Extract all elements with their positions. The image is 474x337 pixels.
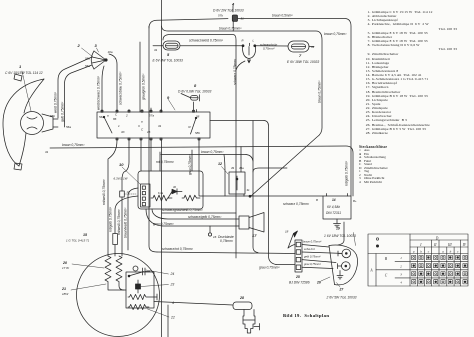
svg-text:C: C [141, 128, 144, 132]
svg-text:gelb 0,75mm²: gelb 0,75mm² [304, 255, 321, 259]
svg-text:86: 86 [113, 117, 117, 121]
svg-text:26: 26 [316, 281, 321, 285]
svg-text:L: L [253, 39, 255, 43]
svg-text:B: B [316, 198, 318, 202]
svg-text:3: 3 [400, 273, 402, 277]
svg-text:31: 31 [154, 48, 158, 52]
svg-text:D 6V 0,6W TGL 10033: D 6V 0,6W TGL 10033 [178, 90, 211, 94]
svg-text:schwarz 0,75mm²: schwarz 0,75mm² [283, 202, 310, 206]
svg-text:6,3a: 6,3a [158, 191, 164, 195]
svg-text:schwarz/rot 0,75mm²: schwarz/rot 0,75mm² [162, 247, 194, 251]
svg-text:III: III [447, 243, 452, 247]
svg-text:31: 31 [45, 150, 49, 154]
svg-text:braun/weiß 0,75mm²: braun/weiß 0,75mm² [124, 207, 128, 238]
svg-text:braun 0,75mm²: braun 0,75mm² [62, 143, 85, 147]
svg-text:b: b [450, 249, 452, 253]
svg-text:rot 0,75mm²: rot 0,75mm² [156, 160, 175, 164]
svg-text:E 6V 8W TGL 10033: E 6V 8W TGL 10033 [153, 59, 184, 63]
svg-text:31: 31 [247, 188, 251, 192]
svg-text:BJ DIN 72586: BJ DIN 72586 [289, 281, 310, 285]
svg-text:27: 27 [339, 288, 345, 292]
svg-text:C: C [385, 274, 388, 278]
svg-text:4: 4 [400, 281, 402, 285]
svg-text:22: 22 [170, 316, 175, 320]
svg-text:weiß/schwarz 0,75mm²: weiß/schwarz 0,75mm² [97, 75, 101, 110]
svg-text:0,75mm²: 0,75mm² [220, 239, 234, 243]
svg-text:12: 12 [218, 162, 222, 166]
svg-text:grau 0,75mm²: grau 0,75mm² [259, 266, 280, 270]
svg-text:31: 31 [311, 45, 315, 49]
svg-text:18W: 18W [62, 292, 69, 296]
svg-text:II: II [433, 243, 437, 247]
svg-text:56b: 56b [85, 57, 90, 61]
svg-text:c: c [457, 249, 459, 253]
svg-text:5: 5 [167, 52, 170, 57]
svg-text:49: 49 [231, 166, 235, 170]
svg-text:grau 0,75mm²: grau 0,75mm² [304, 262, 321, 266]
svg-text:braun 0,75mm²: braun 0,75mm² [219, 27, 242, 31]
svg-text:57a: 57a [149, 114, 154, 118]
svg-text:braun 0,75mm²: braun 0,75mm² [303, 240, 321, 244]
svg-text:1 G TGL 0-415 71: 1 G TGL 0-415 71 [66, 239, 90, 243]
svg-text:gelb 0,75mm²: gelb 0,75mm² [61, 101, 65, 122]
svg-text:4: 4 [172, 301, 174, 305]
svg-text:4: 4 [231, 2, 235, 7]
svg-text:17: 17 [252, 233, 257, 238]
svg-text:3: 3 [95, 43, 98, 48]
svg-text:rot/gelb 0,75mm²: rot/gelb 0,75mm² [345, 160, 349, 186]
svg-text:58b: 58b [195, 131, 200, 135]
svg-text:braun 0,75mm²: braun 0,75mm² [201, 150, 224, 154]
svg-text:weiß 0,75mm²: weiß 0,75mm² [54, 91, 58, 113]
svg-text:24: 24 [170, 272, 175, 276]
svg-text:schwarz/weiß 0,75mm²: schwarz/weiß 0,75mm² [189, 39, 224, 43]
svg-text:1: 1 [118, 124, 120, 128]
svg-text:A: A [369, 269, 373, 273]
svg-text:schwarzgrau/weiß 0,75mm²: schwarzgrau/weiß 0,75mm² [162, 208, 203, 212]
svg-text:grau 0,75mm²: grau 0,75mm² [188, 154, 192, 175]
svg-text:grau 0,75mm²: grau 0,75mm² [153, 222, 174, 226]
svg-text:2 6V 5W TGL 10033: 2 6V 5W TGL 10033 [326, 296, 357, 300]
svg-text:B: B [385, 257, 388, 261]
svg-text:16: 16 [213, 235, 217, 239]
svg-text:grau/grün 0,5mm²: grau/grün 0,5mm² [142, 73, 146, 100]
svg-text:56a: 56a [85, 64, 90, 68]
svg-text:a: a [141, 120, 143, 124]
svg-text:57b: 57b [218, 14, 223, 18]
svg-text:1: 1 [19, 64, 22, 69]
svg-text:a: a [442, 249, 444, 253]
svg-text:2: 2 [77, 43, 81, 48]
svg-text:I: I [419, 243, 422, 247]
svg-text:23: 23 [170, 283, 175, 287]
svg-text:15: 15 [147, 130, 151, 134]
svg-text:schwarz/gelb 0,75mm²: schwarz/gelb 0,75mm² [188, 215, 222, 219]
svg-text:IV: IV [188, 125, 192, 129]
svg-text:c: c [428, 249, 430, 253]
svg-text:2: 2 [400, 264, 402, 268]
svg-text:rot/gelb 0,75mm²: rot/gelb 0,75mm² [109, 206, 113, 232]
svg-text:2: 2 [125, 114, 128, 118]
svg-text:8: 8 [194, 83, 197, 88]
svg-text:II: II [138, 124, 140, 128]
svg-text:a: a [107, 114, 109, 118]
svg-text:31: 31 [158, 124, 162, 128]
svg-text:D: D [435, 237, 439, 241]
svg-text:28: 28 [239, 296, 244, 300]
svg-text:49a: 49a [239, 166, 244, 170]
svg-text:56a: 56a [99, 115, 104, 119]
svg-text:56a: 56a [66, 125, 71, 129]
svg-text:14: 14 [332, 198, 336, 202]
svg-text:31: 31 [241, 17, 245, 21]
svg-text:1: 1 [400, 256, 402, 260]
svg-text:schwarz 0,75mm²: schwarz 0,75mm² [233, 58, 237, 85]
svg-text:58: 58 [196, 115, 200, 119]
svg-text:10: 10 [119, 162, 124, 167]
svg-text:19: 19 [336, 227, 340, 231]
svg-text:30: 30 [173, 185, 176, 189]
svg-text:9: 9 [167, 95, 170, 100]
svg-text:b: b [420, 249, 422, 253]
svg-text:R: R [242, 39, 244, 43]
svg-text:C: C [115, 113, 118, 117]
svg-text:B+: B+ [353, 199, 357, 203]
svg-text:rot/weiß 0,75mm²: rot/weiß 0,75mm² [117, 208, 121, 235]
svg-text:16a: 16a [108, 50, 113, 54]
svg-text:1 6V 18W TGL 10033: 1 6V 18W TGL 10033 [324, 234, 356, 238]
svg-text:21: 21 [61, 287, 66, 291]
svg-text:7: 7 [299, 53, 302, 58]
svg-text:D 6V 2W TGL 10033: D 6V 2W TGL 10033 [213, 9, 244, 13]
svg-text:braun 0,75mm²: braun 0,75mm² [317, 80, 321, 103]
svg-text:25: 25 [295, 275, 300, 279]
svg-text:3C: 3C [121, 130, 126, 134]
svg-text:braun 0,75mm²: braun 0,75mm² [324, 32, 347, 36]
svg-text:15: 15 [83, 233, 88, 237]
svg-text:braun 0,5mm²: braun 0,5mm² [272, 14, 293, 18]
svg-text:6V 4,5Ah: 6V 4,5Ah [327, 205, 340, 209]
svg-text:6,3V/2,1W: 6,3V/2,1W [114, 177, 129, 181]
svg-text:IV: IV [462, 243, 467, 247]
svg-text:DIN 72311: DIN 72311 [326, 211, 341, 215]
svg-text:rot/weiß 0,75mm²: rot/weiß 0,75mm² [102, 178, 106, 205]
svg-text:0,75mm²: 0,75mm² [263, 47, 275, 51]
svg-text:18: 18 [285, 230, 289, 234]
svg-text:schw./rot: schw./rot [304, 247, 315, 251]
svg-text:C 6V 15/15W TGL 114 12: C 6V 15/15W TGL 114 12 [5, 71, 43, 75]
svg-text:a: a [413, 249, 415, 253]
svg-text:20: 20 [62, 261, 67, 265]
svg-text:56b: 56b [50, 114, 55, 118]
svg-text:E 6V 18W TGL 10033: E 6V 18W TGL 10033 [287, 60, 319, 64]
svg-text:17 W: 17 W [62, 266, 70, 270]
svg-text:schwarz/blau 0,75mm²: schwarz/blau 0,75mm² [119, 71, 123, 105]
